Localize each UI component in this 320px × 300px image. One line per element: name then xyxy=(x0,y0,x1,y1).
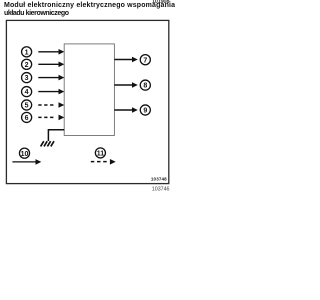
svg-text:3: 3 xyxy=(25,75,29,82)
svg-text:9: 9 xyxy=(143,108,147,115)
svg-text:10: 10 xyxy=(21,151,29,158)
pin 5 circle xyxy=(22,100,32,110)
svg-text:101908: 101908 xyxy=(152,0,170,5)
module box U1 xyxy=(64,44,114,136)
ground symbol xyxy=(41,141,54,146)
svg-text:103746: 103746 xyxy=(152,186,170,192)
wire arrow pin 2 xyxy=(38,62,64,68)
pin 9 circle xyxy=(140,105,150,115)
wire arrow pin 3 xyxy=(38,75,64,81)
pin 3 circle xyxy=(22,73,32,83)
dashed wire arrow pin 11 xyxy=(91,159,116,165)
pin 2 circle xyxy=(22,59,32,69)
wire arrow pin 1 xyxy=(38,49,64,55)
svg-text:5: 5 xyxy=(25,103,29,110)
wire arrow pin 7 xyxy=(114,57,137,63)
svg-text:Moduł elektroniczny elektryczn: Moduł elektroniczny elektrycznego wspoma… xyxy=(4,2,175,9)
pin 7 circle xyxy=(140,55,150,65)
pin 6 circle xyxy=(22,112,32,122)
svg-text:2: 2 xyxy=(25,62,29,69)
svg-text:11: 11 xyxy=(97,151,105,158)
svg-text:4: 4 xyxy=(25,89,29,96)
svg-text:1: 1 xyxy=(25,49,29,56)
wire arrow pin 10 xyxy=(12,159,41,165)
pin 11 circle xyxy=(95,148,105,158)
pin 4 circle xyxy=(22,87,32,97)
wire arrow pin 4 xyxy=(38,89,64,95)
wire arrow pin 9 xyxy=(114,107,137,113)
border frame xyxy=(6,20,168,183)
pin 8 circle xyxy=(140,80,150,90)
svg-text:6: 6 xyxy=(25,115,29,122)
svg-text:7: 7 xyxy=(143,57,147,64)
svg-text:układu kierowniczego: układu kierowniczego xyxy=(4,10,69,17)
pin 1 circle xyxy=(22,47,32,57)
pin 10 circle xyxy=(19,148,29,158)
ground wire from module xyxy=(48,130,64,141)
svg-text:8: 8 xyxy=(143,83,147,90)
dashed wire arrow pin 5 xyxy=(38,102,64,108)
svg-text:103748: 103748 xyxy=(151,177,167,182)
dashed wire arrow pin 6 xyxy=(38,115,64,121)
wire arrow pin 8 xyxy=(114,82,137,88)
